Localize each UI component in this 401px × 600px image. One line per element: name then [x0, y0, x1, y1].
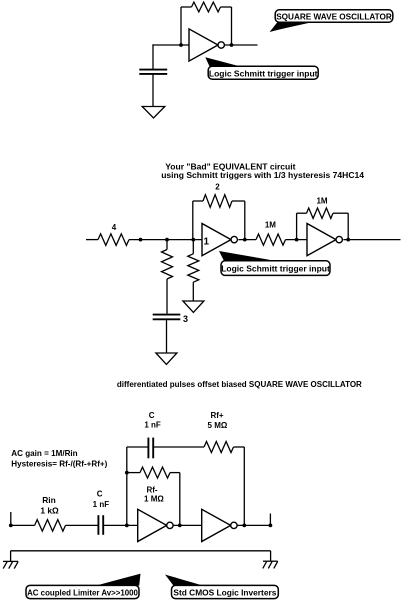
- svg-text:4: 4: [112, 223, 117, 232]
- svg-text:1M: 1M: [316, 197, 327, 206]
- svg-text:using Schmitt triggers with 1/: using Schmitt triggers with 1/3 hysteres…: [161, 170, 364, 180]
- svg-text:AC coupled Limiter Av>>1000: AC coupled Limiter Av>>1000: [27, 588, 138, 597]
- svg-text:1 nF: 1 nF: [93, 500, 110, 509]
- svg-text:1 nF: 1 nF: [144, 420, 161, 429]
- svg-text:1 kΩ: 1 kΩ: [40, 505, 59, 515]
- svg-text:Logic Schmitt trigger input: Logic Schmitt trigger input: [221, 264, 330, 274]
- svg-text:5 MΩ: 5 MΩ: [208, 421, 228, 430]
- svg-text:C: C: [149, 411, 155, 420]
- svg-text:Rf+: Rf+: [210, 411, 223, 420]
- svg-text:1 MΩ: 1 MΩ: [144, 494, 164, 503]
- svg-text:1: 1: [204, 237, 210, 248]
- svg-text:Hysteresis= Rf-/(Rf-+Rf+): Hysteresis= Rf-/(Rf-+Rf+): [11, 459, 107, 468]
- svg-text:differentiated pulses offset b: differentiated pulses offset biased SQUA…: [117, 380, 362, 389]
- svg-text:1M: 1M: [265, 221, 276, 230]
- svg-text:2: 2: [215, 183, 220, 192]
- svg-text:Rin: Rin: [42, 495, 56, 505]
- svg-text:Std CMOS Logic Inverters: Std CMOS Logic Inverters: [173, 588, 276, 598]
- svg-text:AC gain = 1M/Rin: AC gain = 1M/Rin: [11, 449, 77, 458]
- svg-text:3: 3: [183, 314, 188, 324]
- svg-text:Rf-: Rf-: [146, 485, 157, 494]
- svg-text:SQUARE WAVE OSCILLATOR: SQUARE WAVE OSCILLATOR: [276, 12, 392, 21]
- svg-text:C: C: [97, 490, 103, 499]
- svg-text:Logic Schmitt trigger input: Logic Schmitt trigger input: [209, 68, 318, 78]
